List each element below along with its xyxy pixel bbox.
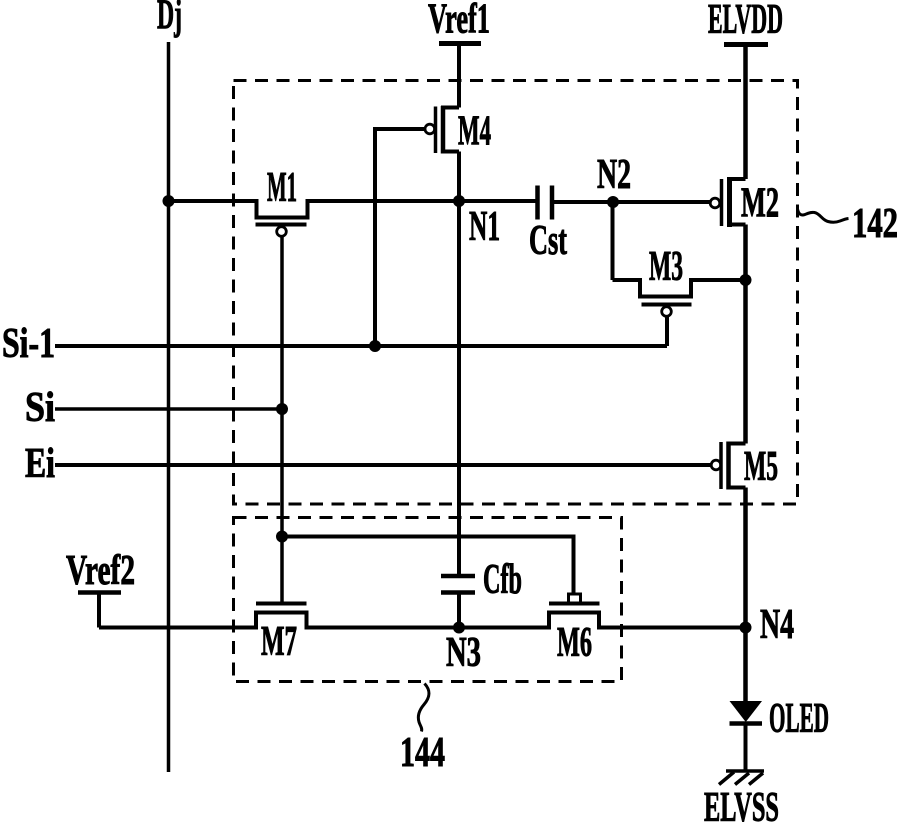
wire Cfb bottom plate to N3 [457, 593, 461, 628]
svg-text:144: 144 [400, 730, 445, 776]
ground ELVSS hatch strokes [719, 772, 763, 785]
capacitor Cfb bottom plate [441, 590, 475, 595]
transistor M3 leads [613, 280, 746, 297]
wire N2 down to M3 [611, 202, 615, 280]
wire OLED cathode to ground [744, 724, 748, 771]
node junction dot M3 drain on ELVDD line [740, 274, 752, 286]
wire M3 gate down to Si-1 [665, 317, 669, 347]
node junction dot M4 gate on Si-1 [369, 340, 381, 352]
transistor M1 gate bar [256, 223, 307, 227]
wire Cst to N2 to M2 gate [552, 200, 710, 204]
transistor M2 source stub [727, 223, 746, 227]
wire ELVDD down to M2 drain [743, 45, 748, 180]
wire M1/M7 gate line vertical [280, 237, 284, 603]
capacitor Cst left plate [535, 186, 540, 220]
wire M5 source down to N4 and OLED [743, 488, 748, 702]
power Vref2 terminal bar [78, 590, 121, 595]
svg-text:Ei: Ei [25, 441, 55, 487]
svg-text:Cst: Cst [529, 218, 567, 264]
transistor M1 channel notch [257, 199, 308, 218]
wire N1 row: Dj to M1 [169, 199, 257, 203]
svg-text:M2: M2 [741, 181, 779, 227]
svg-text:Vref1: Vref1 [428, 0, 490, 43]
leader squiggle for 142 [798, 209, 849, 222]
svg-text:M7: M7 [261, 619, 297, 665]
svg-text:Si-1: Si-1 [2, 321, 55, 367]
svg-text:Dj: Dj [157, 0, 182, 39]
transistor M4 source stub [441, 150, 459, 154]
capacitor Cfb top plate [441, 574, 475, 579]
svg-text:M4: M4 [458, 109, 491, 155]
svg-text:Cfb: Cfb [483, 557, 522, 603]
node junction dot at Dj/N1 row [163, 195, 175, 207]
transistor M7 channel notch [256, 613, 307, 630]
transistor M1 gate bubble [277, 227, 287, 237]
wire bottom row: Vref2 to M7 [99, 626, 256, 630]
transistor M6 gate bubble square [569, 594, 581, 603]
transistor M4 gate bar [434, 107, 438, 154]
dashed box 144 [234, 518, 622, 682]
wire bottom row: M7 to M6 [307, 626, 550, 630]
transistor M2 gate bubble [710, 198, 720, 208]
svg-text:Vref2: Vref2 [66, 548, 135, 594]
node N1 junction dot [453, 195, 465, 207]
transistor M2 gate bar [720, 179, 724, 226]
svg-text:M3: M3 [649, 244, 683, 290]
transistor M4 gate bubble [425, 124, 435, 134]
transistor M2 channel bar [727, 178, 732, 228]
transistor M4 channel bar [441, 106, 446, 154]
transistor M7 gate bar [256, 602, 307, 606]
transistor M2 drain stub [727, 177, 746, 181]
svg-text:ELVSS: ELVSS [704, 785, 779, 824]
capacitor Cst right plate [550, 186, 555, 220]
svg-text:N1: N1 [469, 204, 500, 250]
ground ELVSS symbol bar [726, 769, 764, 773]
svg-text:N3: N3 [446, 630, 481, 676]
diode OLED cathode bar [730, 721, 763, 726]
wire Si row [55, 407, 282, 411]
wire N1 row: M1 to Cst [308, 199, 538, 203]
transistor M3 gate bubble [662, 307, 672, 317]
node N2 junction dot [607, 196, 619, 208]
transistor M4 drain stub [441, 106, 459, 110]
wire bottom row: M6 to N4 [599, 626, 746, 630]
transistor M6 gate bar [549, 602, 600, 606]
node N4 junction dot [740, 622, 752, 634]
wire Vref2 stub [97, 593, 101, 628]
transistor M5 channel bar [726, 442, 731, 490]
wire Dj data line vertical [167, 42, 171, 772]
svg-text:142: 142 [852, 201, 898, 247]
svg-text:N2: N2 [597, 152, 631, 198]
transistor M3 gate bar [642, 303, 692, 307]
svg-text:M1: M1 [267, 165, 297, 211]
diode OLED anode triangle [730, 701, 763, 722]
node junction dot Si / M1 gate [276, 403, 288, 415]
dashed box 142 [234, 81, 798, 505]
power Vref1 terminal bar [439, 41, 481, 46]
svg-text:M6: M6 [557, 620, 592, 666]
transistor M4 gate wire [375, 129, 425, 346]
transistor M5 source stub [727, 486, 746, 490]
node junction dot on gate line in box 144 [276, 531, 288, 543]
svg-text:N4: N4 [760, 602, 794, 648]
wire Ei row [55, 463, 711, 467]
wire M2 source down to M5 drain [743, 225, 748, 444]
wire Si-1 row [55, 344, 667, 348]
wire feedback row from M1 gate line to M6 gate [282, 537, 574, 595]
svg-text:Si: Si [25, 385, 55, 431]
transistor M5 drain stub [727, 442, 746, 446]
transistor M6 channel notch [549, 613, 599, 630]
svg-text:OLED: OLED [769, 696, 829, 742]
transistor M5 gate bubble [711, 460, 721, 470]
svg-text:M5: M5 [744, 444, 778, 490]
svg-text:ELVDD: ELVDD [708, 0, 783, 43]
wire Vref1 stub down to M4 drain [457, 44, 461, 108]
power ELVDD terminal bar [724, 42, 768, 47]
transistor M5 gate bar [719, 442, 723, 489]
node N3 junction dot [453, 622, 465, 634]
leader squiggle for 144 [418, 684, 429, 732]
wire M4 source down through N1 to Cfb [457, 152, 461, 575]
